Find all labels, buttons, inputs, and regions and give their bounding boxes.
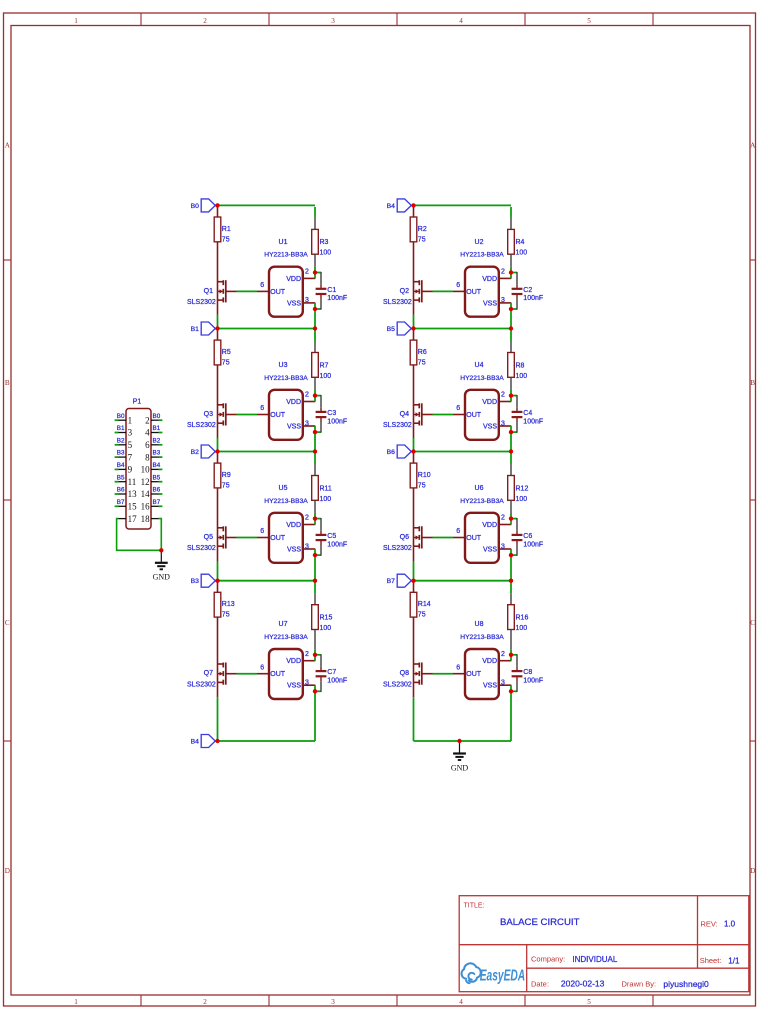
- transistor Q2 SLS2302: [383, 280, 422, 306]
- svg-text:R4: R4: [516, 239, 525, 246]
- wire: [413, 697, 415, 741]
- svg-text:3: 3: [331, 17, 335, 25]
- U6 pin 6 OUT: [453, 528, 465, 537]
- title text: [464, 903, 580, 928]
- wire Q2 gate to OUT: [422, 290, 453, 292]
- wire: [510, 330, 512, 341]
- svg-text:SLS2302: SLS2302: [187, 299, 216, 306]
- resistor R11 value 100: [312, 476, 332, 503]
- wire to capacitor bottom: [315, 299, 321, 310]
- wire R14 to Q8: [413, 617, 415, 683]
- capacitor C5 value 100nF: [316, 531, 348, 549]
- wire: [314, 555, 316, 581]
- svg-text:C8: C8: [523, 669, 532, 676]
- svg-text:B7: B7: [387, 578, 396, 585]
- svg-text:VDD: VDD: [482, 399, 497, 406]
- wire VDD node: [314, 396, 316, 402]
- svg-text:5: 5: [128, 440, 133, 450]
- svg-text:75: 75: [222, 360, 230, 367]
- P1 pin 7: [119, 452, 133, 462]
- wire: [314, 500, 316, 513]
- junction: [215, 203, 219, 207]
- svg-text:75: 75: [418, 236, 426, 243]
- wire VDD node: [510, 519, 512, 525]
- svg-text:5: 5: [587, 998, 591, 1006]
- P1 pin 9: [119, 465, 133, 475]
- junction: [313, 579, 317, 583]
- junction: [215, 449, 219, 453]
- svg-text:10: 10: [141, 465, 151, 475]
- svg-text:3: 3: [501, 297, 505, 304]
- svg-text:VSS: VSS: [287, 683, 301, 690]
- svg-text:GND: GND: [451, 764, 469, 773]
- wire: [314, 218, 316, 230]
- wire: [510, 207, 512, 218]
- wire to capacitor top: [511, 654, 517, 667]
- P1 pin 15: [119, 502, 138, 512]
- svg-text:R3: R3: [320, 239, 329, 246]
- net flag B6: [387, 445, 412, 458]
- svg-text:SLS2302: SLS2302: [187, 545, 216, 552]
- wire Q1 gate to OUT: [226, 290, 257, 292]
- P1 pin 12: [141, 477, 159, 487]
- svg-text:Sheet:: Sheet:: [700, 956, 722, 965]
- P1 wire stub B1 right: [159, 432, 163, 434]
- wire net B0: [218, 204, 316, 206]
- wire: [314, 582, 316, 593]
- rev text: [701, 920, 736, 929]
- P1 pin 17: [119, 514, 138, 524]
- wire to capacitor bottom: [511, 681, 517, 692]
- wire VDD node: [510, 273, 512, 279]
- svg-text:OUT: OUT: [270, 535, 286, 542]
- wire: [314, 390, 316, 396]
- resistor R6 value 75: [410, 340, 427, 366]
- wire to capacitor bottom: [315, 681, 321, 692]
- transistor Q1 SLS2302: [187, 280, 226, 306]
- wire: [510, 555, 512, 581]
- wire Q7 source down: [217, 683, 219, 697]
- junction: [313, 393, 317, 397]
- wire: [510, 377, 512, 390]
- wire VDD node: [510, 396, 512, 402]
- wire: [510, 341, 512, 353]
- svg-text:B0: B0: [117, 413, 125, 420]
- P1 wire stub B5 right: [159, 481, 163, 483]
- svg-text:VDD: VDD: [482, 522, 497, 529]
- junction: [313, 689, 317, 693]
- wire VDD node: [314, 655, 316, 661]
- wire: [217, 315, 219, 329]
- svg-text:HY2213-BB3A: HY2213-BB3A: [460, 498, 504, 505]
- svg-text:3: 3: [305, 543, 309, 550]
- wire P1 pin17 to ground: [117, 519, 162, 551]
- svg-text:B2: B2: [191, 449, 200, 456]
- svg-text:Q6: Q6: [400, 534, 409, 541]
- svg-text:2: 2: [305, 269, 309, 276]
- wire R5 to Q3: [217, 365, 219, 424]
- wire: [314, 309, 316, 329]
- wire R13 lead top: [217, 582, 219, 592]
- U5 pin 3 VSS: [303, 543, 316, 550]
- wire R1 lead top: [217, 207, 219, 217]
- svg-text:VDD: VDD: [286, 276, 301, 283]
- junction: [509, 449, 513, 453]
- wire net B1: [218, 328, 316, 330]
- svg-text:OUT: OUT: [466, 412, 482, 419]
- svg-text:3: 3: [501, 420, 505, 427]
- svg-text:R7: R7: [320, 362, 329, 369]
- wire Q4 gate to OUT: [422, 414, 453, 416]
- wire VSS node: [314, 685, 316, 691]
- svg-text:VSS: VSS: [483, 683, 497, 690]
- wire: [217, 561, 219, 581]
- svg-text:R15: R15: [320, 615, 333, 622]
- wire R2 to Q2: [413, 242, 415, 301]
- wire VDD node: [314, 273, 316, 279]
- resistor R14 value 75: [410, 592, 431, 618]
- svg-text:3: 3: [501, 680, 505, 687]
- junction: [509, 553, 513, 557]
- P1 wire stub B3 right: [159, 456, 163, 458]
- svg-text:100nF: 100nF: [523, 541, 543, 548]
- svg-text:100: 100: [516, 496, 528, 503]
- wire Q1 source down: [217, 301, 219, 315]
- svg-text:C5: C5: [327, 533, 336, 540]
- svg-text:B: B: [750, 379, 755, 387]
- net flag B0: [191, 199, 216, 212]
- wire net B4: [218, 740, 316, 742]
- svg-text:100: 100: [320, 250, 332, 257]
- svg-text:Q8: Q8: [400, 670, 409, 677]
- wire Q8 gate to OUT: [422, 673, 453, 675]
- P1 wire stub B6 left: [115, 493, 119, 495]
- svg-text:B6: B6: [117, 487, 125, 494]
- svg-text:4: 4: [459, 998, 463, 1006]
- svg-text:100: 100: [516, 625, 528, 632]
- svg-text:2: 2: [305, 515, 309, 522]
- svg-text:100nF: 100nF: [327, 678, 347, 685]
- resistor R12 value 100: [508, 476, 529, 503]
- svg-text:Date:: Date:: [531, 979, 549, 988]
- P1 pin 10: [141, 465, 159, 475]
- svg-text:100nF: 100nF: [523, 418, 543, 425]
- P1 pin 3: [119, 428, 133, 438]
- svg-text:1.0: 1.0: [724, 920, 736, 929]
- svg-text:R13: R13: [222, 601, 235, 608]
- svg-text:11: 11: [128, 477, 137, 487]
- wire: [314, 267, 316, 273]
- P1 wire stub B6 right: [159, 493, 163, 495]
- U4 pin 6 OUT: [453, 405, 465, 414]
- wire: [217, 438, 219, 452]
- svg-text:2: 2: [501, 651, 505, 658]
- wire Q5 gate to OUT: [226, 537, 257, 539]
- svg-text:GND: GND: [153, 573, 171, 582]
- svg-text:75: 75: [418, 360, 426, 367]
- IC U8 HY2213-BB3A: [460, 621, 504, 699]
- svg-text:75: 75: [222, 483, 230, 490]
- P1 wire stub B4 left: [115, 468, 119, 470]
- svg-text:17: 17: [128, 514, 138, 524]
- wire: [413, 315, 415, 329]
- title block: [459, 896, 749, 992]
- wire: [314, 649, 316, 655]
- svg-text:Q3: Q3: [204, 411, 213, 418]
- svg-text:OUT: OUT: [270, 412, 286, 419]
- wire: [314, 207, 316, 218]
- svg-text:R16: R16: [516, 615, 529, 622]
- wire Q6 source down: [413, 547, 415, 561]
- junction: [509, 516, 513, 520]
- net flag B3: [191, 574, 216, 587]
- svg-text:HY2213-BB3A: HY2213-BB3A: [264, 375, 308, 382]
- wire R2 lead top: [413, 207, 415, 217]
- net flag B2: [191, 445, 216, 458]
- svg-text:TITLE:: TITLE:: [464, 903, 485, 910]
- junction: [313, 307, 317, 311]
- svg-text:R14: R14: [418, 601, 431, 608]
- svg-text:2: 2: [305, 651, 309, 658]
- U1 pin 6 OUT: [257, 282, 269, 291]
- U6 pin 2 VDD: [499, 515, 512, 525]
- svg-text:SLS2302: SLS2302: [187, 681, 216, 688]
- svg-text:100nF: 100nF: [327, 541, 347, 548]
- IC U7 HY2213-BB3A: [264, 621, 308, 699]
- P1 wire stub B0 right: [159, 419, 163, 421]
- U4 pin 2 VDD: [499, 392, 512, 402]
- P1 pin 1: [119, 415, 133, 425]
- resistor R1 value 75: [214, 217, 231, 243]
- svg-text:100nF: 100nF: [327, 295, 347, 302]
- svg-text:HY2213-BB3A: HY2213-BB3A: [460, 375, 504, 382]
- wire to capacitor bottom: [511, 422, 517, 433]
- svg-text:BALACE CIRCUIT: BALACE CIRCUIT: [500, 917, 580, 928]
- svg-text:B6: B6: [387, 449, 396, 456]
- svg-text:OUT: OUT: [466, 535, 482, 542]
- U3 pin 3 VSS: [303, 420, 316, 427]
- wire Q7 gate to OUT: [226, 673, 257, 675]
- junction: [411, 203, 415, 207]
- wire: [314, 691, 316, 741]
- wire: [510, 267, 512, 273]
- transistor Q8 SLS2302: [383, 663, 422, 689]
- date text: [531, 979, 709, 989]
- svg-text:100nF: 100nF: [523, 678, 543, 685]
- wire: [510, 254, 512, 267]
- svg-text:piyushnegi0: piyushnegi0: [663, 979, 709, 989]
- IC U3 HY2213-BB3A: [264, 362, 308, 440]
- net flag B5: [387, 322, 412, 335]
- transistor Q7 SLS2302: [187, 663, 226, 689]
- U5 pin 2 VDD: [303, 515, 316, 525]
- svg-text:75: 75: [222, 612, 230, 619]
- junction: [509, 326, 513, 330]
- svg-text:B1: B1: [153, 425, 161, 432]
- svg-text:4: 4: [145, 428, 150, 438]
- svg-text:6: 6: [260, 282, 264, 289]
- P1 wire stub B1 left: [115, 432, 119, 434]
- svg-text:VDD: VDD: [286, 658, 301, 665]
- svg-text:6: 6: [456, 528, 460, 535]
- capacitor C2 value 100nF: [512, 285, 544, 303]
- wire to capacitor top: [511, 395, 517, 408]
- svg-text:REV:: REV:: [701, 920, 718, 929]
- svg-text:INDIVIDUAL: INDIVIDUAL: [572, 955, 617, 964]
- svg-text:VSS: VSS: [483, 300, 497, 307]
- P1 wire stub B5 left: [115, 481, 119, 483]
- svg-text:C: C: [750, 619, 755, 627]
- wire R6 lead top: [413, 330, 415, 340]
- junction: [509, 393, 513, 397]
- wire: [510, 390, 512, 396]
- wire to capacitor top: [511, 518, 517, 531]
- svg-text:100: 100: [320, 496, 332, 503]
- svg-text:B6: B6: [153, 487, 161, 494]
- wire: [510, 500, 512, 513]
- svg-text:B4: B4: [387, 203, 396, 210]
- wire: [314, 513, 316, 519]
- svg-text:R1: R1: [222, 226, 231, 233]
- svg-text:3: 3: [305, 420, 309, 427]
- wire: [217, 697, 219, 741]
- svg-text:2: 2: [501, 392, 505, 399]
- svg-text:100: 100: [516, 373, 528, 380]
- svg-text:100: 100: [320, 625, 332, 632]
- junction: [215, 326, 219, 330]
- svg-text:C3: C3: [327, 410, 336, 417]
- net flag B4: [387, 199, 412, 212]
- svg-text:3: 3: [128, 428, 133, 438]
- svg-text:R8: R8: [516, 362, 525, 369]
- svg-text:U4: U4: [475, 362, 484, 369]
- wire net B7: [414, 580, 512, 582]
- svg-text:B2: B2: [153, 437, 161, 444]
- svg-text:Q1: Q1: [204, 288, 213, 295]
- svg-text:R11: R11: [320, 485, 332, 492]
- P1 pin 11: [119, 477, 137, 487]
- svg-text:9: 9: [128, 465, 133, 475]
- svg-text:C4: C4: [523, 410, 532, 417]
- svg-text:75: 75: [418, 483, 426, 490]
- U1 pin 3 VSS: [303, 297, 316, 304]
- capacitor C4 value 100nF: [512, 408, 544, 426]
- svg-text:OUT: OUT: [466, 671, 482, 678]
- svg-text:B5: B5: [387, 326, 396, 333]
- wire: [510, 218, 512, 230]
- P1 wire stub B7 left: [115, 505, 119, 507]
- wire: [510, 513, 512, 519]
- U8 pin 2 VDD: [499, 651, 512, 661]
- U7 pin 3 VSS: [303, 680, 316, 687]
- wire VDD node: [510, 655, 512, 661]
- wire to capacitor top: [315, 272, 321, 285]
- P1 pin 16: [141, 502, 159, 512]
- wire: [314, 254, 316, 267]
- svg-text:VSS: VSS: [483, 547, 497, 554]
- resistor R5 value 75: [214, 340, 231, 366]
- wire VSS node: [510, 549, 512, 555]
- junction: [215, 579, 219, 583]
- svg-text:B3: B3: [191, 578, 200, 585]
- wire R10 to Q6: [413, 488, 415, 547]
- wire Q6 gate to OUT: [422, 537, 453, 539]
- svg-text:B4: B4: [191, 738, 200, 745]
- junction: [313, 449, 317, 453]
- svg-text:6: 6: [260, 405, 264, 412]
- svg-text:C2: C2: [523, 287, 532, 294]
- svg-text:U5: U5: [279, 485, 288, 492]
- P1 wire stub B2 left: [115, 444, 119, 446]
- wire: [510, 691, 512, 741]
- svg-text:SLS2302: SLS2302: [383, 681, 412, 688]
- IC U2 HY2213-BB3A: [460, 239, 504, 317]
- svg-text:HY2213-BB3A: HY2213-BB3A: [460, 634, 504, 641]
- svg-text:SLS2302: SLS2302: [383, 299, 412, 306]
- wire: [413, 438, 415, 452]
- capacitor C1 value 100nF: [316, 285, 348, 303]
- svg-text:B0: B0: [191, 203, 200, 210]
- U4 pin 3 VSS: [499, 420, 512, 427]
- svg-text:Q2: Q2: [400, 288, 409, 295]
- svg-text:C: C: [5, 619, 10, 627]
- P1 pin 18: [141, 514, 159, 524]
- IC U1 HY2213-BB3A: [264, 239, 308, 317]
- svg-text:13: 13: [128, 489, 138, 499]
- wire to capacitor bottom: [315, 545, 321, 556]
- wire VSS node: [510, 303, 512, 309]
- svg-text:U3: U3: [279, 362, 288, 369]
- wire VSS node: [314, 303, 316, 309]
- svg-text:HY2213-BB3A: HY2213-BB3A: [264, 252, 308, 259]
- svg-text:VDD: VDD: [482, 276, 497, 283]
- svg-text:100nF: 100nF: [523, 295, 543, 302]
- svg-text:2: 2: [203, 998, 207, 1006]
- junction: [411, 579, 415, 583]
- resistor R13 value 75: [214, 592, 235, 618]
- wire R14 lead top: [413, 582, 415, 592]
- svg-text:VSS: VSS: [483, 424, 497, 431]
- wire: [314, 377, 316, 390]
- wire: [510, 432, 512, 451]
- svg-text:2: 2: [145, 415, 150, 425]
- wire net B4: [414, 204, 512, 206]
- P1 wire stub B0 left: [115, 419, 119, 421]
- wire Q2 source down: [413, 301, 415, 315]
- svg-text:R2: R2: [418, 226, 427, 233]
- P1 pin 8: [145, 452, 158, 462]
- resistor R9 value 75: [214, 463, 231, 489]
- resistor R3 value 100: [312, 229, 332, 256]
- wire: [413, 561, 415, 581]
- U2 pin 6 OUT: [453, 282, 465, 291]
- svg-text:EasyEDA: EasyEDA: [480, 966, 525, 984]
- IC U6 HY2213-BB3A: [460, 485, 504, 563]
- U2 pin 3 VSS: [499, 297, 512, 304]
- wire to capacitor top: [315, 518, 321, 531]
- wire GND net: [414, 740, 512, 742]
- resistor R8 value 100: [508, 353, 528, 380]
- svg-text:SLS2302: SLS2302: [187, 422, 216, 429]
- U3 pin 2 VDD: [303, 392, 316, 402]
- svg-text:1: 1: [74, 17, 78, 25]
- svg-text:6: 6: [456, 405, 460, 412]
- transistor Q4 SLS2302: [383, 403, 422, 429]
- U7 pin 2 VDD: [303, 651, 316, 661]
- wire VSS node: [314, 549, 316, 555]
- svg-text:B1: B1: [191, 326, 200, 333]
- transistor Q6 SLS2302: [383, 526, 422, 552]
